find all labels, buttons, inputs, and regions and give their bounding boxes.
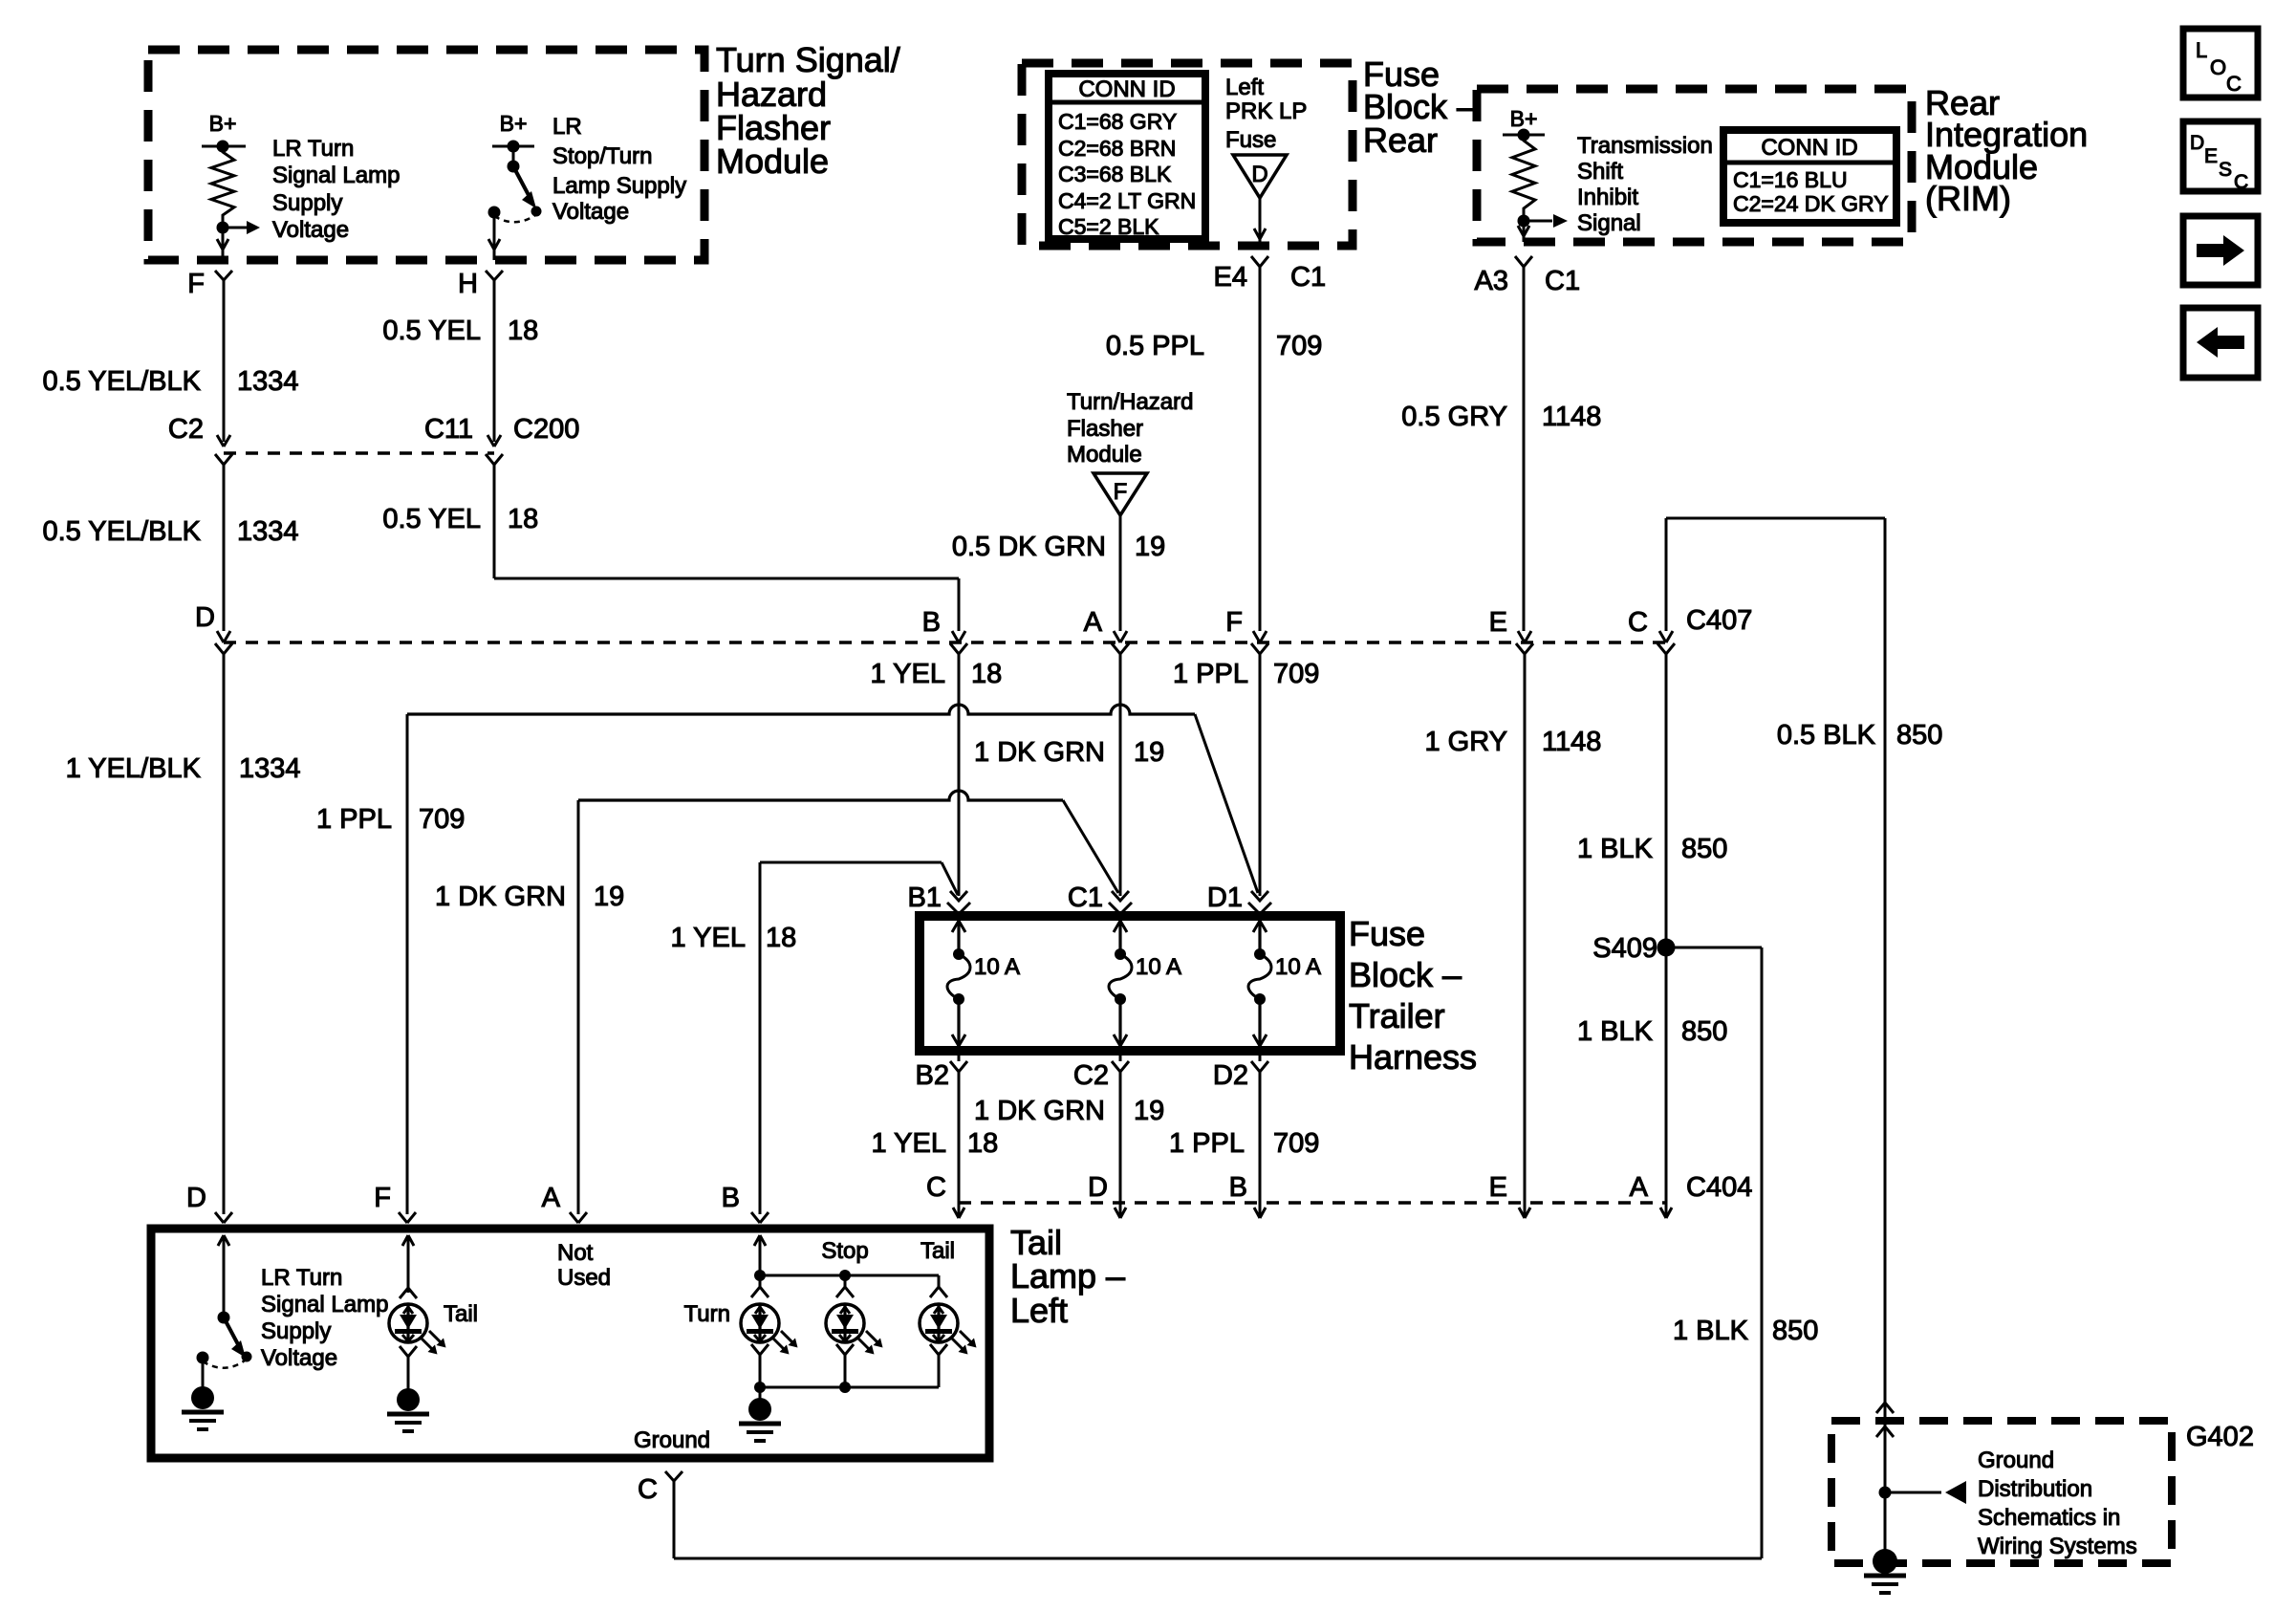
connector row C407 (dashed)	[224, 641, 1666, 644]
turn/stop/tail cluster bus	[754, 1235, 939, 1281]
svg-text:1148: 1148	[1542, 727, 1601, 757]
svg-text:Harness: Harness	[1349, 1037, 1477, 1077]
svg-text:LR Turn: LR Turn	[261, 1265, 342, 1291]
svg-text:PRK LP: PRK LP	[1225, 98, 1307, 124]
arrow into C200 row	[487, 435, 501, 446]
title Rear Integration Module (RIM)	[1925, 83, 2088, 218]
C404 pin B	[1229, 1172, 1266, 1218]
svg-text:LR Turn: LR Turn	[272, 136, 354, 162]
svg-text:D: D	[195, 602, 215, 633]
svg-text:D: D	[2190, 132, 2204, 154]
module box: Rear Integration Module (dashed)	[1477, 89, 1912, 242]
svg-text:Voltage: Voltage	[272, 217, 349, 243]
svg-text:B+: B+	[500, 111, 528, 136]
svg-text:18: 18	[508, 504, 538, 534]
resistor LR Turn Signal Lamp Supply	[211, 146, 234, 221]
svg-text:C11: C11	[424, 414, 473, 445]
svg-text:Flasher: Flasher	[1067, 416, 1143, 442]
connector row C404 (dashed)	[959, 1201, 1666, 1205]
svg-text:Signal Lamp: Signal Lamp	[272, 163, 400, 188]
label 1 PPL 709 (branch)	[316, 804, 465, 835]
svg-text:C1=16 BLU: C1=16 BLU	[1733, 167, 1848, 192]
bulb Stop lower lead	[836, 1344, 854, 1387]
C404 pin C	[926, 1172, 964, 1218]
ground (turn bulb cluster)	[739, 1387, 781, 1441]
bulb Turn lower lead	[751, 1344, 769, 1387]
component box: Tail Lamp - Left	[151, 1229, 989, 1458]
Y connector at F	[215, 271, 232, 280]
svg-text:Signal: Signal	[1577, 210, 1641, 236]
svg-text:Tail: Tail	[444, 1301, 478, 1327]
svg-text:Tail: Tail	[921, 1238, 955, 1264]
label 0.5 DK GRN 19	[952, 532, 1165, 562]
svg-text:Module: Module	[716, 142, 829, 181]
C404 pin D	[1088, 1172, 1126, 1218]
svg-text:1 PPL: 1 PPL	[316, 804, 392, 835]
svg-text:850: 850	[1681, 834, 1727, 864]
svg-text:0.5 DK GRN: 0.5 DK GRN	[952, 532, 1106, 562]
button LOC	[2183, 29, 2258, 98]
ground (switch)	[182, 1358, 224, 1429]
label 1 YEL 18 (branch)	[671, 923, 797, 953]
label 0.5 YEL 18	[382, 316, 538, 346]
dashed junction row C2 / C11 C200	[224, 451, 494, 455]
svg-text:0.5 PPL: 0.5 PPL	[1106, 331, 1204, 361]
title Fuse Block - Trailer Harness	[1349, 914, 1477, 1077]
wire 1 BLK 850 (C407-C down to S409)	[1665, 654, 1668, 1207]
C404 pin E	[1489, 1172, 1530, 1218]
wire diagonal to B1	[942, 862, 958, 895]
svg-text:Stop: Stop	[821, 1238, 868, 1264]
label LR Turn Signal Lamp Supply Voltage (tail)	[261, 1265, 388, 1371]
svg-text:Left: Left	[1225, 75, 1264, 100]
label Not Used	[557, 1240, 611, 1291]
svg-text:A: A	[542, 1183, 561, 1213]
svg-text:Turn/Hazard: Turn/Hazard	[1067, 389, 1194, 415]
svg-text:0.5 YEL/BLK: 0.5 YEL/BLK	[42, 366, 201, 397]
svg-text:Used: Used	[557, 1265, 611, 1291]
title Turn Signal/Hazard Flasher Module	[716, 40, 900, 181]
svg-text:19: 19	[1134, 1096, 1164, 1126]
svg-text:Fuse: Fuse	[1349, 914, 1425, 953]
title Fuse Block - Rear	[1363, 54, 1476, 160]
svg-text:850: 850	[1681, 1016, 1727, 1047]
svg-text:19: 19	[1134, 737, 1164, 768]
chevron below C200 row	[486, 454, 503, 465]
svg-text:E: E	[1489, 1172, 1507, 1203]
svg-text:Signal Lamp: Signal Lamp	[261, 1292, 388, 1317]
svg-text:Transmission: Transmission	[1577, 133, 1713, 159]
svg-text:F: F	[374, 1183, 391, 1213]
fuse 10 A (col x=1172)	[1109, 921, 1181, 1046]
tail bulb (F)	[400, 1235, 417, 1298]
svg-text:C407: C407	[1686, 605, 1752, 636]
bulb Stop	[836, 1275, 854, 1297]
svg-text:D: D	[1251, 162, 1267, 187]
svg-text:B1: B1	[908, 882, 942, 913]
fuse 10 A (col x=1318)	[1248, 921, 1321, 1046]
svg-text:Block –: Block –	[1349, 955, 1462, 994]
svg-text:C1: C1	[1068, 882, 1103, 913]
wire F 0.5 YEL/BLK 1334 (upper)	[223, 280, 226, 442]
svg-text:Inhibit: Inhibit	[1577, 185, 1638, 210]
wire 1 PPL 709 (F drop to fuse D1)	[1259, 654, 1262, 896]
svg-text:Voltage: Voltage	[552, 199, 629, 225]
svg-text:C1=68 GRY: C1=68 GRY	[1058, 109, 1177, 134]
svg-text:1 YEL: 1 YEL	[872, 1128, 946, 1159]
svg-text:10 A: 10 A	[1275, 954, 1321, 980]
splice S409	[1592, 933, 1675, 964]
fuse 10 A (col x=1003)	[947, 921, 1020, 1046]
label 0.5 BLK 850	[1777, 720, 1943, 751]
module box: Fuse Block - Rear (dashed)	[1022, 63, 1353, 246]
node/junction with arrow (LR Turn voltage tap)	[217, 221, 261, 260]
svg-text:LR: LR	[552, 114, 582, 140]
svg-text:1 BLK: 1 BLK	[1673, 1316, 1749, 1346]
wire 1 YEL/BLK 1334 (D drop to tail lamp)	[223, 654, 226, 1214]
svg-text:Supply: Supply	[272, 190, 342, 216]
svg-text:G402: G402	[2186, 1422, 2254, 1452]
title Tail Lamp - Left	[1010, 1223, 1125, 1330]
wire 0.5 BLK 850 (C407-C up and over)	[1666, 518, 1885, 1402]
fuse symbol D (triangle)	[1233, 155, 1287, 198]
label 0.5 PPL 709	[1106, 331, 1323, 361]
svg-text:C200: C200	[513, 414, 579, 445]
wire 1 YEL 18 (B2 to C404-C)	[958, 1072, 961, 1207]
label Ground Distribution Schematics in Wiring Systems	[1978, 1448, 2137, 1559]
C404 pin A + label	[1630, 1172, 1753, 1218]
svg-text:B+: B+	[1510, 106, 1538, 131]
svg-text:0.5 GRY: 0.5 GRY	[1401, 402, 1507, 432]
tail lamp entry A	[542, 1183, 587, 1223]
label 1 YEL 18 (B2)	[872, 1128, 999, 1159]
arrow into C2 row	[217, 435, 230, 446]
label 0.5 YEL 18 (2)	[382, 504, 538, 534]
button next (right arrow)	[2183, 216, 2258, 285]
wire branch 1 DK GRN 19 horizontal (hops B)	[578, 791, 1063, 800]
wire branch 1 YEL 18 vertical to tail lamp B	[759, 862, 762, 1214]
svg-text:Schematics in: Schematics in	[1978, 1505, 2120, 1531]
wire F 0.5 YEL/BLK 1334 (lower)	[223, 465, 226, 631]
button DESC	[2183, 121, 2258, 193]
wire diagonal to D1	[1195, 714, 1258, 893]
svg-text:B: B	[1229, 1172, 1247, 1203]
bulb Turn	[751, 1275, 769, 1297]
label 1 PPL 709 (D2)	[1169, 1128, 1319, 1159]
wire S409 branch to ground run	[674, 947, 1762, 1558]
svg-text:1334: 1334	[237, 366, 299, 397]
B+ supply (RIM)	[1503, 106, 1545, 142]
label Turn/Hazard Flasher Module	[1067, 389, 1194, 468]
svg-text:Fuse: Fuse	[1225, 127, 1276, 153]
label 1 DK GRN 19 (C2)	[974, 1096, 1164, 1126]
labels Stop Tail	[821, 1238, 955, 1264]
svg-text:C3=68 BLK: C3=68 BLK	[1058, 162, 1172, 186]
svg-text:C: C	[638, 1474, 658, 1505]
svg-text:E: E	[2204, 145, 2218, 167]
button previous (left arrow)	[2183, 308, 2258, 378]
label Transmission Shift Inhibit Signal	[1577, 133, 1713, 236]
tail lamp entry F	[374, 1183, 416, 1223]
svg-text:Ground: Ground	[634, 1427, 710, 1453]
svg-text:1 BLK: 1 BLK	[1577, 1016, 1654, 1047]
svg-text:Turn: Turn	[684, 1301, 730, 1327]
resistor Transmission Shift Inhibit	[1512, 135, 1535, 214]
svg-text:E: E	[1489, 607, 1507, 638]
switch LR Stop/Turn (blade)	[488, 146, 542, 222]
Y connector A3/C1	[1515, 256, 1532, 267]
label 1 BLK 850 (lower)	[1577, 1016, 1727, 1047]
fuse block box: Fuse Block - Trailer Harness	[920, 916, 1340, 1051]
labels B2 C2 D2	[916, 1060, 1248, 1091]
svg-text:1 PPL: 1 PPL	[1169, 1128, 1245, 1159]
svg-text:C2=24 DK GRY: C2=24 DK GRY	[1733, 191, 1889, 216]
svg-text:Lamp –: Lamp –	[1010, 1256, 1125, 1295]
svg-text:Shift: Shift	[1577, 159, 1623, 185]
svg-text:Left: Left	[1010, 1291, 1068, 1330]
svg-text:10 A: 10 A	[1136, 954, 1181, 980]
svg-text:B: B	[722, 1183, 740, 1213]
CONN ID table (RIM)	[1723, 130, 1896, 223]
wire 1 PPL 709 (D2 to C404-B)	[1259, 1072, 1262, 1207]
wire 0.5 PPL 709 from fuse to C407-F	[1259, 267, 1262, 631]
svg-text:1 YEL/BLK: 1 YEL/BLK	[66, 753, 202, 784]
svg-text:F: F	[187, 269, 205, 299]
label 1 DK GRN 19 (branch)	[435, 882, 624, 912]
svg-text:Wiring Systems: Wiring Systems	[1978, 1534, 2137, 1559]
B+ supply (LR Turn)	[202, 111, 246, 153]
svg-text:1334: 1334	[239, 753, 301, 784]
flasher symbol F (triangle)	[1094, 473, 1147, 515]
C407 pin F label+arrow	[1225, 607, 1268, 654]
svg-text:Voltage: Voltage	[261, 1345, 337, 1371]
svg-text:D: D	[186, 1183, 206, 1213]
svg-text:F: F	[1225, 607, 1243, 638]
wire into G402 + junction	[1879, 1402, 1967, 1554]
Y connectors B1 C1 D1	[950, 891, 967, 901]
svg-text:D2: D2	[1213, 1060, 1248, 1091]
svg-text:L: L	[2196, 38, 2207, 62]
svg-text:19: 19	[594, 882, 624, 912]
svg-text:CONN ID: CONN ID	[1761, 135, 1857, 161]
svg-text:A: A	[1630, 1172, 1649, 1203]
svg-text:850: 850	[1772, 1316, 1818, 1346]
svg-text:18: 18	[971, 659, 1002, 689]
svg-text:709: 709	[1273, 659, 1319, 689]
label 1 BLK 850 (upper)	[1577, 834, 1727, 864]
svg-text:S: S	[2219, 159, 2232, 181]
label LR Stop/Turn Lamp Supply Voltage	[552, 114, 686, 225]
labels A3 C1	[1475, 266, 1581, 296]
wire 1 DK GRN 19 (A drop to fuse C1)	[1119, 654, 1122, 896]
wire branch 1 DK GRN 19 vertical to tail lamp A	[577, 800, 580, 1214]
label 0.5 YEL/BLK 1334 (2)	[42, 516, 298, 547]
svg-text:709: 709	[419, 804, 465, 835]
wire H 0.5 YEL 18 (upper)	[493, 280, 496, 442]
label 1 PPL 709 (F)	[1173, 659, 1319, 689]
svg-text:F: F	[1114, 479, 1128, 505]
C407 pin E label+arrow	[1489, 607, 1533, 654]
wire 0.5 YEL 18 (lower) down then right to B drop	[494, 465, 959, 631]
wire 1 DK GRN 19 (C2 to C404-D)	[1119, 1072, 1122, 1207]
svg-text:850: 850	[1896, 720, 1942, 751]
svg-text:Module: Module	[1067, 442, 1142, 468]
svg-text:709: 709	[1276, 331, 1322, 361]
bulb Stop rays	[857, 1338, 871, 1351]
svg-text:C: C	[1628, 607, 1648, 638]
svg-text:Not: Not	[557, 1240, 594, 1266]
svg-text:Lamp Supply: Lamp Supply	[552, 173, 686, 199]
labels E4 C1	[1214, 262, 1327, 293]
label 1 YEL 18 (B)	[871, 659, 1003, 689]
Y connectors B2 C2 D2	[958, 1051, 961, 1061]
module box: Turn Signal/Hazard Flasher Module (dashed)	[148, 50, 704, 260]
label 1 YEL/BLK 1334	[66, 753, 301, 784]
bulb Tail	[389, 1304, 427, 1342]
svg-text:Rear: Rear	[1363, 120, 1438, 160]
svg-text:C4=2 LT GRN: C4=2 LT GRN	[1058, 188, 1196, 213]
module box: G402 ground distribution (dashed)	[1831, 1421, 2172, 1563]
svg-text:C2=68 BRN: C2=68 BRN	[1058, 136, 1176, 161]
wire 0.5 DK GRN 19 to C407-A	[1119, 515, 1122, 631]
svg-text:H: H	[458, 269, 478, 299]
labels B1 C1 D1	[908, 882, 1243, 913]
svg-text:D: D	[1088, 1172, 1108, 1203]
svg-text:A: A	[1084, 607, 1103, 638]
label 0.5 YEL/BLK 1334	[42, 366, 298, 397]
svg-text:0.5 YEL: 0.5 YEL	[382, 504, 481, 534]
svg-text:1 GRY: 1 GRY	[1424, 727, 1507, 757]
label 1 BLK 850 (ground run)	[1673, 1316, 1818, 1346]
wire from switch to H pin	[493, 212, 496, 260]
wire fuse D output	[1259, 198, 1262, 246]
connector C11/C200 labels	[424, 414, 579, 445]
B+ supply (LR Stop/Turn)	[492, 111, 534, 153]
C407 pin C label+arrow	[1628, 607, 1675, 654]
svg-text:C404: C404	[1686, 1172, 1752, 1203]
ground pin C	[638, 1471, 682, 1558]
svg-text:0.5 YEL: 0.5 YEL	[382, 316, 481, 346]
svg-text:C: C	[2226, 72, 2242, 96]
svg-text:1 BLK: 1 BLK	[1577, 834, 1654, 864]
lower bus	[754, 1382, 939, 1393]
svg-text:C1: C1	[1545, 266, 1580, 296]
svg-text:C2: C2	[1073, 1060, 1109, 1091]
bulb Tail rays	[951, 1338, 964, 1351]
chevron below C2 row	[215, 454, 232, 465]
svg-text:CONN ID: CONN ID	[1078, 76, 1175, 102]
Y connector E4/C1	[1251, 256, 1268, 267]
svg-text:Ground: Ground	[1978, 1448, 2054, 1473]
svg-text:10 A: 10 A	[974, 954, 1020, 980]
label 1 GRY 1148	[1424, 727, 1601, 757]
label Left PRK LP Fuse	[1225, 75, 1307, 153]
0.5 BLK wire entry chevrons at G402	[1876, 1403, 1894, 1437]
svg-text:O: O	[2210, 55, 2226, 79]
svg-text:C5=2 BLK: C5=2 BLK	[1058, 214, 1159, 239]
svg-text:D1: D1	[1207, 882, 1243, 913]
svg-text:C1: C1	[1290, 262, 1326, 293]
svg-text:Stop/Turn: Stop/Turn	[552, 143, 653, 169]
svg-text:0.5 YEL/BLK: 0.5 YEL/BLK	[42, 516, 201, 547]
CONN ID table (fuse block rear)	[1049, 74, 1205, 239]
wire branch 1 PPL 709 vertical to tail lamp F	[406, 714, 409, 1214]
svg-text:1 PPL: 1 PPL	[1173, 659, 1248, 689]
svg-text:Turn Signal/: Turn Signal/	[716, 40, 900, 79]
svg-text:19: 19	[1135, 532, 1165, 562]
svg-text:1 DK GRN: 1 DK GRN	[974, 1096, 1105, 1126]
svg-text:C2: C2	[168, 414, 204, 445]
wire branch 1 PPL 709 horizontal (hops B and A)	[407, 705, 1195, 714]
svg-text:(RIM): (RIM)	[1925, 179, 2011, 218]
junction + signal arrow	[1518, 214, 1569, 242]
svg-text:C: C	[926, 1172, 946, 1203]
svg-text:1334: 1334	[237, 516, 299, 547]
wire 0.5 GRY 1148 to C407-E	[1523, 267, 1526, 631]
wire 1 YEL 18 (B drop to fuse B1)	[958, 654, 961, 896]
svg-text:C: C	[2234, 171, 2248, 193]
C407 pin B label+arrow	[922, 607, 967, 654]
svg-text:1 DK GRN: 1 DK GRN	[974, 737, 1105, 768]
wire diagonal to C1	[1063, 800, 1118, 893]
svg-text:18: 18	[967, 1128, 998, 1159]
Y connector at H	[486, 271, 503, 280]
svg-text:1 DK GRN: 1 DK GRN	[435, 882, 566, 912]
svg-text:Trailer: Trailer	[1349, 996, 1445, 1035]
label LR Turn Signal Lamp Supply Voltage	[272, 136, 400, 243]
svg-text:B+: B+	[209, 111, 237, 136]
wire 1 GRY 1148 (E drop to C404)	[1524, 654, 1527, 1207]
svg-text:0.5 BLK: 0.5 BLK	[1777, 720, 1876, 751]
label 1 DK GRN 19 (A)	[974, 737, 1164, 768]
svg-text:A3: A3	[1475, 266, 1508, 296]
svg-text:S409: S409	[1592, 933, 1657, 964]
bulb Tail rays	[421, 1338, 434, 1351]
svg-text:Supply: Supply	[261, 1318, 331, 1344]
bulb Tail	[930, 1275, 947, 1297]
svg-text:18: 18	[508, 316, 538, 346]
C407 pin A label+arrow	[1084, 607, 1129, 654]
svg-text:709: 709	[1273, 1128, 1319, 1159]
svg-text:Distribution: Distribution	[1978, 1476, 2092, 1502]
wire exit arrow F pin	[217, 239, 228, 250]
tail lamp entry D	[186, 1183, 232, 1223]
svg-text:1 YEL: 1 YEL	[871, 659, 945, 689]
bulb Tail lower lead	[930, 1344, 947, 1387]
bulb Turn rays	[772, 1338, 786, 1351]
C407 pin D arrow	[217, 631, 230, 642]
tail lamp entry B	[722, 1183, 769, 1223]
svg-text:B2: B2	[916, 1060, 949, 1091]
svg-text:1148: 1148	[1542, 402, 1601, 432]
label 0.5 GRY 1148	[1401, 402, 1601, 432]
svg-text:1 YEL: 1 YEL	[671, 923, 746, 953]
svg-text:18: 18	[766, 923, 796, 953]
wire branch 1 YEL 18 horizontal	[760, 861, 942, 864]
svg-text:B: B	[922, 607, 941, 638]
switch LR Turn Signal (inside tail lamp)	[197, 1235, 252, 1368]
ground (tail bulb)	[387, 1346, 429, 1431]
ground G402	[1864, 1549, 1906, 1593]
exit arrow A3	[1518, 226, 1529, 236]
svg-text:E4: E4	[1214, 262, 1247, 293]
